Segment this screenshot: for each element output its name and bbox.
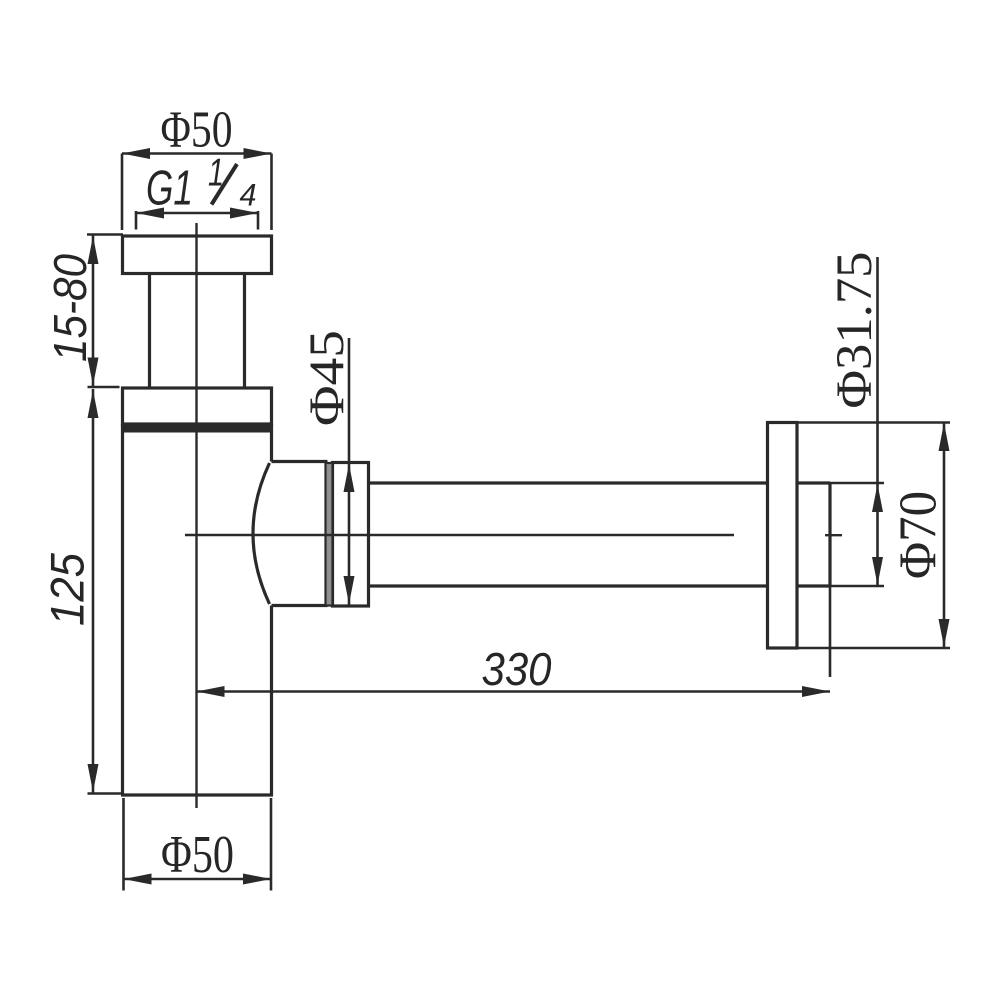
svg-text:Φ31.75: Φ31.75 [827,252,883,409]
svg-text:Φ45: Φ45 [298,330,354,426]
svg-text:Φ50: Φ50 [161,826,234,884]
svg-text:Φ50: Φ50 [161,101,233,158]
svg-text:Φ70: Φ70 [890,491,948,579]
svg-text:15-80: 15-80 [44,254,96,362]
svg-text:G1: G1 [146,161,193,215]
svg-text:330: 330 [482,643,552,695]
svg-text:4: 4 [240,177,257,213]
svg-text:125: 125 [41,552,94,626]
